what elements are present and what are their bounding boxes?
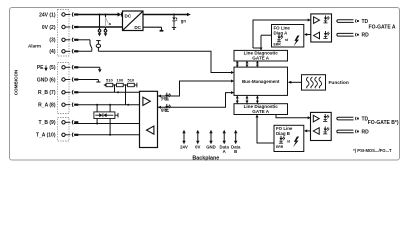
svg-text:FO-GATE A: FO-GATE A [369,24,396,30]
svg-text:*) PSI-MOS.../FO...T: *) PSI-MOS.../FO...T [353,148,392,153]
svg-text:GND (6): GND (6) [37,77,56,83]
svg-text:(5): (5) [49,65,55,71]
svg-text:TD: TD [362,19,369,25]
svg-text:Diag B: Diag B [276,131,290,136]
svg-text:FO-GATE B*): FO-GATE B*) [368,120,399,126]
svg-text:GATE A: GATE A [252,109,270,114]
svg-text:RD: RD [362,129,370,135]
svg-text:R_A (8): R_A (8) [38,103,56,109]
svg-text:0V (2): 0V (2) [42,25,56,31]
svg-text:A: A [223,149,226,154]
svg-text:510: 510 [128,78,135,83]
svg-text:Bus-Management: Bus-Management [242,79,280,84]
svg-text:B: B [234,149,237,154]
svg-text:510: 510 [106,78,113,83]
svg-text:ERR: ERR [274,43,282,47]
svg-text:rd: rd [287,140,290,144]
svg-text:DC: DC [134,25,141,30]
svg-text:0V: 0V [195,144,200,149]
svg-text:PE: PE [37,65,44,71]
svg-text:(3): (3) [49,38,55,44]
svg-text:T_B (9): T_B (9) [39,120,56,126]
svg-text:(4): (4) [49,49,55,55]
svg-text:COMBICON: COMBICON [14,69,19,95]
svg-text:T_A (10): T_A (10) [36,133,56,139]
svg-text:Backplane: Backplane [192,155,219,161]
svg-text:RD: RD [362,33,370,39]
svg-text:24V: 24V [180,144,188,149]
svg-text:rd: rd [285,38,288,42]
svg-text:gn: gn [181,19,187,24]
svg-text:Diag A: Diag A [274,30,289,35]
svg-text:R_B (7): R_B (7) [38,90,56,96]
svg-text:DC: DC [125,13,132,18]
svg-text:ERR: ERR [276,145,284,149]
svg-text:Alarm: Alarm [28,43,41,48]
svg-text:Function: Function [329,80,349,86]
svg-text:GND: GND [206,144,216,149]
svg-text:100: 100 [117,78,124,83]
svg-text:GATE A: GATE A [252,56,270,61]
svg-text:24V (1): 24V (1) [39,12,56,18]
